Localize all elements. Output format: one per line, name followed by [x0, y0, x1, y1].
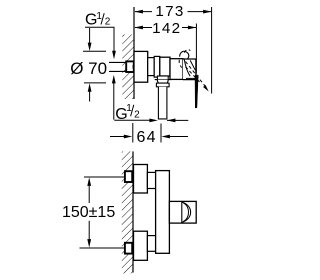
- svg-text:64: 64: [136, 129, 156, 146]
- body plate (plan view): [156, 171, 170, 254]
- dimension 142: [134, 20, 196, 74]
- ring flange (side view): [154, 56, 160, 77]
- body bottom edge: [155, 79, 172, 81]
- s-union sleeve (side view): [148, 58, 155, 76]
- svg-text:Ø 70: Ø 70: [70, 59, 107, 78]
- dashed lever arrow tip: [203, 85, 209, 92]
- svg-text:2: 2: [105, 16, 111, 27]
- union inner tick: [133, 65, 135, 69]
- lever cap block (side view): [183, 59, 196, 80]
- svg-text:150±15: 150±15: [62, 204, 115, 221]
- lever blade (side view): [195, 75, 198, 108]
- lower union square: [125, 243, 132, 254]
- label G 1/2 (lower, outlet): [114, 103, 188, 123]
- outlet step: [157, 80, 168, 84]
- dimension 64: [110, 123, 188, 146]
- label G 1/2 (top): [85, 11, 116, 59]
- lever tail curl: [180, 51, 189, 59]
- cartridge housing (side view): [170, 59, 183, 80]
- supply pipe in wall: [109, 62, 126, 71]
- dashed lever open position: [179, 50, 206, 88]
- wall union square: [126, 61, 134, 72]
- body block (side view): [160, 57, 170, 76]
- outlet pipe: [158, 87, 167, 119]
- outlet nut: [156, 83, 169, 87]
- dimension D70: [70, 28, 107, 102]
- knob dome arcs: [182, 202, 191, 222]
- wall hatch (plan view): [122, 151, 133, 273]
- upper union square: [125, 171, 132, 182]
- lever bottom edge: [186, 77, 195, 79]
- body lower step: [157, 76, 168, 80]
- svg-text:2: 2: [134, 109, 140, 120]
- dimension 173: [134, 3, 211, 94]
- supply leader arrow (from lower label up to pipe): [112, 75, 116, 120]
- wall face line (side view), also left extension for dims 173/142: [133, 7, 135, 99]
- cartridge knob (plan view): [169, 201, 196, 223]
- knob inner line: [181, 201, 183, 223]
- svg-text:142: 142: [152, 20, 181, 37]
- lower sleeve (plan view): [147, 236, 155, 252]
- wall face line (plan view): [132, 151, 134, 272]
- lower escutcheon (plan view): [134, 231, 148, 260]
- upper sleeve (plan view): [147, 172, 155, 188]
- svg-text:1: 1: [96, 11, 102, 22]
- escutcheon (side view): [134, 51, 148, 82]
- dimension 150±15: [62, 177, 125, 248]
- upper escutcheon (plan view): [134, 165, 148, 194]
- wall hatch (side view): [122, 35, 134, 100]
- svg-text:173: 173: [155, 3, 184, 20]
- lever neck diagonals: [184, 60, 195, 77]
